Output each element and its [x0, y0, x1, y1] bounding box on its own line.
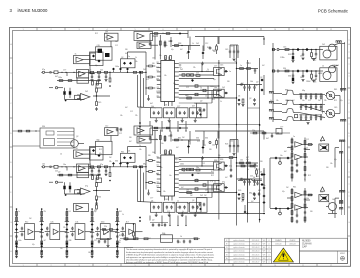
svg-text:1k: 1k	[75, 54, 77, 56]
svg-text:10k: 10k	[230, 141, 233, 143]
svg-text:LJ: LJ	[268, 251, 270, 253]
svg-text:330: 330	[98, 197, 101, 199]
svg-text:68p: 68p	[302, 90, 305, 92]
svg-text:C45: C45	[98, 102, 101, 104]
svg-text:47p: 47p	[340, 100, 343, 102]
svg-text:PCB Schematic: PCB Schematic	[318, 9, 349, 14]
svg-text:10k: 10k	[42, 164, 45, 166]
svg-text:C45: C45	[283, 47, 286, 49]
svg-text:F: F	[226, 240, 227, 242]
svg-text:Q2: Q2	[152, 220, 154, 222]
svg-text:330: 330	[196, 138, 199, 140]
svg-text:10k: 10k	[163, 191, 166, 193]
svg-text:2k2: 2k2	[196, 43, 199, 45]
svg-text:100n: 100n	[180, 164, 184, 166]
svg-text:C12: C12	[306, 139, 309, 141]
svg-text:1n: 1n	[18, 211, 20, 213]
svg-text:4k7: 4k7	[192, 106, 195, 108]
svg-text:100n: 100n	[115, 66, 119, 68]
svg-text:2011-03-02: 2011-03-02	[252, 244, 260, 246]
svg-text:10k: 10k	[88, 252, 91, 254]
svg-text:2k2: 2k2	[182, 137, 185, 139]
svg-text:47p: 47p	[42, 69, 45, 71]
svg-text:2k2: 2k2	[286, 187, 289, 189]
svg-text:C77: C77	[214, 66, 217, 68]
svg-text:10k: 10k	[214, 87, 217, 89]
svg-text:22k: 22k	[172, 203, 175, 205]
svg-text:10k: 10k	[157, 70, 159, 72]
svg-text:C12: C12	[94, 240, 97, 242]
svg-text:C12: C12	[205, 43, 208, 45]
svg-text:10k: 10k	[156, 186, 159, 188]
svg-text:2k2: 2k2	[143, 69, 146, 71]
svg-text:22k: 22k	[157, 95, 159, 97]
svg-text:C77: C77	[63, 70, 66, 72]
svg-text:LJ: LJ	[268, 247, 270, 249]
svg-text:2011-03-01: 2011-03-01	[252, 240, 260, 242]
svg-text:10n: 10n	[302, 100, 305, 102]
svg-text:330: 330	[227, 81, 230, 83]
svg-text:10n: 10n	[161, 143, 164, 145]
svg-text:2011-03-03: 2011-03-03	[252, 247, 260, 249]
svg-text:R12: R12	[157, 62, 160, 64]
svg-text:C45: C45	[75, 148, 78, 150]
svg-text:2011-03-07: 2011-03-07	[252, 262, 260, 264]
svg-text:CHECK: CHECK	[289, 240, 296, 242]
svg-text:10k: 10k	[120, 115, 123, 117]
svg-text:10k: 10k	[250, 81, 253, 83]
svg-text:100n: 100n	[285, 100, 289, 102]
svg-text:47p: 47p	[210, 181, 213, 183]
svg-text:47p: 47p	[213, 79, 216, 81]
svg-text:C77: C77	[122, 236, 125, 238]
svg-text:10k: 10k	[105, 31, 108, 33]
svg-text:R88: R88	[320, 192, 323, 194]
svg-text:R12: R12	[308, 175, 311, 177]
svg-text:47p: 47p	[229, 166, 232, 168]
svg-text:R05: R05	[225, 144, 228, 146]
svg-text:R88: R88	[69, 240, 72, 242]
svg-text:R41: R41	[334, 89, 337, 91]
svg-text:47p: 47p	[241, 201, 244, 203]
svg-text:1k: 1k	[220, 101, 222, 103]
svg-text:10k: 10k	[164, 75, 167, 77]
svg-text:10n: 10n	[282, 57, 285, 59]
svg-text:R41: R41	[156, 174, 159, 176]
svg-text:330: 330	[320, 73, 323, 75]
svg-text:2k2: 2k2	[85, 91, 88, 93]
svg-text:2k2: 2k2	[204, 195, 207, 197]
svg-text:22k: 22k	[44, 211, 47, 213]
svg-text:Q2: Q2	[249, 98, 251, 100]
svg-text:22k: 22k	[109, 161, 112, 163]
svg-text:330: 330	[260, 161, 263, 163]
svg-text:LJ: LJ	[268, 244, 270, 246]
svg-text:C12: C12	[202, 163, 205, 165]
svg-text:LJ: LJ	[268, 258, 270, 260]
svg-text:4k7: 4k7	[129, 141, 132, 143]
svg-text:2k2: 2k2	[190, 195, 193, 197]
svg-text:330: 330	[129, 137, 132, 139]
svg-text:10n: 10n	[60, 248, 63, 250]
svg-text:C12: C12	[308, 100, 311, 102]
svg-text:2k2: 2k2	[168, 136, 171, 138]
svg-text:22k: 22k	[263, 185, 266, 187]
svg-text:2k2: 2k2	[212, 50, 215, 52]
svg-text:Q2: Q2	[260, 77, 262, 79]
svg-text:1k: 1k	[207, 69, 209, 71]
svg-text:2011-03: 2011-03	[289, 244, 295, 246]
svg-text:47p: 47p	[94, 211, 97, 213]
svg-text:D4: D4	[300, 56, 302, 58]
svg-text:4k7: 4k7	[266, 138, 269, 140]
svg-text:1n: 1n	[177, 200, 179, 202]
svg-text:C12: C12	[115, 45, 118, 47]
svg-text:2k2: 2k2	[318, 100, 321, 102]
svg-text:22k: 22k	[193, 67, 196, 69]
svg-text:R05: R05	[238, 190, 241, 192]
svg-text:Q2: Q2	[200, 101, 202, 103]
svg-text:2011-03: 2011-03	[275, 244, 281, 246]
svg-text:1k: 1k	[180, 236, 182, 238]
svg-text:2011-03-04: 2011-03-04	[252, 251, 260, 253]
svg-text:R05: R05	[162, 233, 165, 235]
svg-text:2011-03-06: 2011-03-06	[252, 258, 260, 260]
svg-text:4k7: 4k7	[284, 151, 287, 153]
svg-text:4k7: 4k7	[176, 147, 179, 149]
svg-text:10n: 10n	[196, 167, 199, 169]
svg-text:1n: 1n	[229, 71, 231, 73]
svg-text:WH: WH	[263, 240, 266, 242]
svg-text:100n: 100n	[156, 79, 160, 81]
svg-text:47p: 47p	[171, 49, 174, 51]
svg-text:2k2: 2k2	[180, 69, 183, 71]
svg-text:Q2: Q2	[192, 200, 194, 202]
svg-text:22k: 22k	[157, 190, 159, 192]
svg-text:D4: D4	[300, 77, 302, 79]
svg-text:WH: WH	[263, 244, 266, 246]
svg-text:Q2: Q2	[76, 136, 78, 138]
svg-text:R05: R05	[288, 54, 291, 56]
svg-text:1k: 1k	[306, 148, 308, 150]
svg-text:R05: R05	[313, 82, 316, 84]
svg-text:47p: 47p	[85, 186, 88, 188]
svg-text:10n: 10n	[63, 164, 66, 166]
svg-text:iNUKE NU3000: iNUKE NU3000	[18, 8, 48, 13]
svg-text:10k: 10k	[152, 152, 155, 154]
svg-text:C45: C45	[88, 70, 91, 72]
svg-text:R88: R88	[220, 159, 223, 161]
svg-text:C45: C45	[246, 63, 249, 65]
svg-text:LJ: LJ	[268, 254, 270, 256]
svg-text:R12: R12	[146, 79, 149, 81]
svg-text:10k: 10k	[330, 163, 333, 165]
svg-text:R12: R12	[200, 111, 203, 113]
svg-text:R41: R41	[293, 187, 296, 189]
svg-text:4k7: 4k7	[125, 107, 128, 109]
svg-text:C12: C12	[197, 141, 200, 143]
svg-text:C45: C45	[165, 199, 168, 201]
svg-text:10k: 10k	[186, 190, 189, 192]
svg-text:C12: C12	[186, 87, 189, 89]
svg-text:C12: C12	[157, 182, 160, 184]
svg-text:1n: 1n	[214, 182, 216, 184]
svg-text:C77: C77	[150, 198, 153, 200]
svg-text:330: 330	[152, 63, 155, 65]
svg-text:330: 330	[326, 167, 329, 169]
svg-text:47p: 47p	[32, 244, 35, 246]
svg-text:who relies either wholly or in: who relies either wholly or in part upon…	[126, 258, 213, 261]
svg-text:LJ: LJ	[268, 262, 270, 264]
svg-text:4k7: 4k7	[262, 65, 265, 67]
svg-text:47p: 47p	[100, 164, 103, 166]
svg-text:4k7: 4k7	[126, 222, 129, 224]
svg-text:D4: D4	[69, 211, 71, 213]
svg-text:10k: 10k	[218, 155, 221, 157]
svg-text:1n: 1n	[293, 136, 295, 138]
svg-text:C12: C12	[119, 133, 122, 135]
svg-text:C45: C45	[50, 222, 53, 224]
svg-text:of MUSIC Group IP Ltd. All inf: of MUSIC Group IP Ltd. All information c…	[126, 253, 214, 256]
svg-text:Q2: Q2	[256, 82, 258, 84]
svg-text:1k: 1k	[322, 66, 324, 68]
svg-text:10k: 10k	[240, 160, 243, 162]
svg-text:C77: C77	[186, 95, 189, 97]
svg-text:R88: R88	[178, 43, 181, 45]
svg-text:D4: D4	[260, 172, 262, 174]
svg-text:1n: 1n	[240, 65, 242, 67]
svg-text:R05: R05	[156, 67, 159, 69]
svg-text:R12: R12	[212, 99, 215, 101]
svg-text:C12: C12	[105, 126, 108, 128]
svg-text:10k: 10k	[135, 61, 138, 63]
svg-text:1n: 1n	[119, 240, 121, 242]
svg-text:D4: D4	[165, 105, 167, 107]
svg-text:WH: WH	[263, 262, 266, 264]
svg-text:100n: 100n	[168, 41, 172, 43]
svg-text:330: 330	[205, 138, 208, 140]
svg-text:4k7: 4k7	[44, 240, 47, 242]
svg-text:C77: C77	[177, 106, 180, 108]
svg-text:10n: 10n	[280, 155, 283, 157]
svg-text:100n: 100n	[18, 240, 21, 242]
svg-text:330: 330	[283, 68, 286, 70]
svg-text:68p: 68p	[143, 164, 146, 166]
svg-text:R41: R41	[88, 164, 91, 166]
svg-text:NU3000: NU3000	[302, 241, 311, 243]
svg-text:C45: C45	[152, 58, 155, 60]
svg-text:10k: 10k	[212, 145, 215, 147]
svg-text:100n: 100n	[210, 86, 214, 88]
svg-text:R12: R12	[25, 222, 28, 224]
svg-text:22k: 22k	[324, 100, 327, 102]
svg-text:47p: 47p	[175, 159, 178, 161]
svg-text:330: 330	[125, 49, 128, 51]
svg-text:C12: C12	[230, 46, 233, 48]
svg-text:10n: 10n	[332, 199, 335, 201]
svg-text:WH: WH	[263, 251, 266, 253]
svg-text:330: 330	[42, 126, 45, 128]
svg-text:CAP: CAP	[302, 246, 307, 249]
svg-text:D4: D4	[128, 151, 130, 153]
svg-text:4k7: 4k7	[258, 190, 261, 192]
svg-text:47p: 47p	[282, 191, 285, 193]
svg-text:D4: D4	[238, 96, 240, 98]
svg-text:10k: 10k	[75, 222, 78, 224]
svg-text:This document contains proprie: This document contains proprietary infor…	[126, 248, 212, 251]
svg-text:Q2: Q2	[156, 91, 158, 93]
svg-text:22k: 22k	[156, 162, 159, 164]
svg-text:C12: C12	[157, 87, 160, 89]
svg-text:R88: R88	[285, 90, 288, 92]
svg-text:Q2: Q2	[58, 172, 60, 174]
svg-text:C45: C45	[220, 65, 223, 67]
svg-text:WH: WH	[263, 254, 266, 256]
svg-text:WH: WH	[263, 258, 266, 260]
svg-text:330: 330	[310, 211, 313, 213]
svg-text:LJ: LJ	[268, 240, 270, 242]
svg-text:47p: 47p	[334, 159, 337, 161]
svg-text:R12: R12	[99, 149, 102, 151]
svg-text:330: 330	[115, 161, 118, 163]
svg-text:C45: C45	[334, 107, 337, 109]
svg-text:R12: R12	[334, 100, 337, 102]
svg-text:2k2: 2k2	[222, 87, 225, 89]
svg-text:10k: 10k	[306, 198, 309, 200]
svg-text:1n: 1n	[128, 56, 130, 58]
svg-text:CUW-AN: CUW-AN	[302, 243, 312, 246]
svg-text:22k: 22k	[63, 227, 66, 229]
svg-text:C45: C45	[97, 45, 100, 47]
svg-text:68p: 68p	[97, 139, 100, 141]
svg-text:2011-03-05: 2011-03-05	[252, 254, 260, 256]
svg-text:DRAWN: DRAWN	[275, 239, 282, 242]
svg-text:2k2: 2k2	[322, 44, 325, 46]
svg-text:2k2: 2k2	[200, 195, 203, 197]
svg-text:10k: 10k	[139, 149, 142, 151]
svg-text:100n: 100n	[101, 222, 105, 224]
svg-text:C77: C77	[205, 190, 208, 192]
svg-text:C12: C12	[130, 111, 133, 113]
svg-text:C77: C77	[280, 127, 283, 129]
svg-text:2k2: 2k2	[308, 81, 311, 83]
svg-text:22k: 22k	[135, 115, 138, 117]
svg-text:D4: D4	[253, 177, 255, 179]
svg-text:2k2: 2k2	[109, 157, 112, 159]
svg-text:68p: 68p	[249, 193, 252, 195]
svg-text:1k: 1k	[60, 154, 62, 156]
svg-text:10n: 10n	[169, 175, 172, 177]
svg-text:330: 330	[209, 149, 212, 151]
svg-text:C77: C77	[78, 170, 81, 172]
svg-text:R12: R12	[313, 60, 316, 62]
svg-text:4k7: 4k7	[180, 49, 183, 51]
svg-text:1k: 1k	[205, 96, 207, 98]
svg-text:4k7: 4k7	[125, 240, 128, 242]
svg-text:10k: 10k	[157, 165, 159, 167]
svg-text:2k2: 2k2	[100, 70, 103, 72]
svg-text:R41: R41	[178, 138, 181, 140]
svg-text:2k2: 2k2	[29, 218, 32, 220]
svg-text:100n: 100n	[58, 77, 62, 79]
svg-text:R12: R12	[211, 175, 214, 177]
svg-text:4k7: 4k7	[246, 157, 249, 159]
svg-text:10k: 10k	[276, 100, 279, 102]
svg-text:WH: WH	[263, 247, 266, 249]
svg-text:R05: R05	[119, 211, 122, 213]
svg-text:1k: 1k	[192, 43, 194, 45]
svg-text:4k7: 4k7	[150, 103, 153, 105]
svg-text:R12: R12	[157, 156, 160, 158]
svg-text:330: 330	[148, 155, 151, 157]
svg-text:1k: 1k	[200, 87, 202, 89]
svg-text:4k7: 4k7	[225, 177, 228, 179]
svg-text:1k: 1k	[320, 141, 322, 143]
svg-text:22k: 22k	[252, 130, 255, 132]
svg-text:330: 330	[288, 76, 291, 78]
svg-text:1k: 1k	[122, 214, 124, 216]
svg-text:R41: R41	[121, 151, 124, 153]
svg-text:R12: R12	[95, 33, 98, 35]
svg-text:47p: 47p	[222, 182, 225, 184]
svg-text:2k2: 2k2	[196, 73, 199, 75]
svg-text:Behringer and iNUKE are tradem: Behringer and iNUKE are trademarks of MU…	[126, 261, 209, 264]
svg-text:C45: C45	[225, 49, 228, 51]
svg-text:Q2: Q2	[121, 57, 123, 59]
svg-text:C12: C12	[240, 163, 243, 165]
svg-text:R05: R05	[78, 76, 81, 78]
svg-text:22k: 22k	[104, 226, 107, 228]
